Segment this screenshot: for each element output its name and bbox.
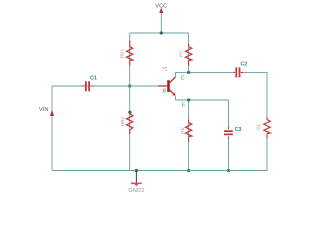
svg-text:C2: C2 — [240, 61, 247, 67]
capacitor C1 leads — [82, 85, 94, 87]
wire: emitter vertical — [174, 96, 176, 100]
wire: C2 to right column — [243, 71, 267, 73]
port VIN arrow — [50, 110, 54, 116]
resistor RB1 — [127, 47, 133, 61]
capacitor C1 — [86, 81, 89, 91]
capacitor C3 leads — [228, 127, 230, 140]
resistor RB2 leads — [129, 112, 131, 134]
wire: emitter rail — [175, 99, 228, 101]
svg-text:?1: ?1 — [162, 67, 168, 73]
wire: RE column — [188, 100, 190, 171]
svg-text:RC: RC — [179, 50, 185, 57]
resistor RE — [185, 123, 191, 137]
node: base divider junction — [128, 84, 131, 87]
capacitor C3 — [224, 131, 233, 134]
transistor Q1 base lead — [158, 85, 168, 87]
transistor Q1 base bar — [167, 80, 170, 92]
svg-text:VCC: VCC — [155, 3, 167, 9]
node: RE bottom junction — [187, 169, 190, 172]
resistor RL leads — [266, 117, 268, 139]
node: collector junction — [187, 71, 190, 74]
svg-text:RL: RL — [256, 123, 262, 130]
wire: collector rail to C2 — [175, 71, 233, 73]
resistor RB2 — [127, 114, 133, 130]
svg-text:E: E — [182, 103, 186, 109]
svg-text:B: B — [163, 89, 167, 95]
resistor RC leads — [188, 44, 190, 67]
svg-text:GND2: GND2 — [128, 188, 144, 194]
wire: collector vertical — [174, 72, 176, 77]
wire: ground bus — [52, 170, 267, 172]
wire: right column top — [266, 72, 268, 116]
wire: C3 column top — [228, 100, 230, 127]
node: ground junction — [135, 169, 138, 172]
svg-text:C: C — [181, 75, 185, 81]
transistor Q1 collector stroke — [170, 77, 176, 83]
wire: RB2 column (teal) — [129, 86, 131, 171]
svg-text:RB2: RB2 — [120, 117, 126, 127]
node: emitter junction — [187, 98, 190, 101]
wire: VCC stem — [160, 13, 162, 33]
capacitor C2 — [236, 67, 239, 77]
node: VCC junction — [160, 31, 163, 34]
resistor RB1 leads — [129, 41, 131, 66]
power symbol VCC arrow — [159, 8, 163, 13]
wire: ground stem — [135, 171, 137, 183]
wire: C3 column bottom — [228, 139, 230, 171]
ground symbol — [131, 182, 142, 184]
capacitor C2 leads — [233, 71, 243, 73]
resistor RC — [185, 47, 191, 61]
node: C3 bottom junction — [227, 169, 230, 172]
svg-text:RE: RE — [180, 127, 186, 134]
wire: VIN column — [51, 86, 53, 171]
svg-text:C1: C1 — [90, 75, 97, 81]
svg-text:RB1: RB1 — [119, 49, 125, 59]
wire: base horizontal — [52, 85, 157, 87]
svg-text:C3: C3 — [235, 127, 242, 133]
resistor RE leads — [188, 120, 190, 142]
resistor RL — [264, 120, 270, 134]
wire: VCC top rail — [130, 32, 189, 34]
transistor Q1 emitter arrowhead — [172, 93, 175, 96]
wire: RC column — [188, 33, 190, 72]
wire: RB1 column (teal) — [129, 33, 131, 86]
wire: right column bottom — [266, 139, 268, 171]
svg-text:VIN: VIN — [39, 107, 49, 113]
transistor Q1 emitter stroke — [170, 90, 174, 94]
node: RB2 top pin dot — [128, 111, 131, 114]
